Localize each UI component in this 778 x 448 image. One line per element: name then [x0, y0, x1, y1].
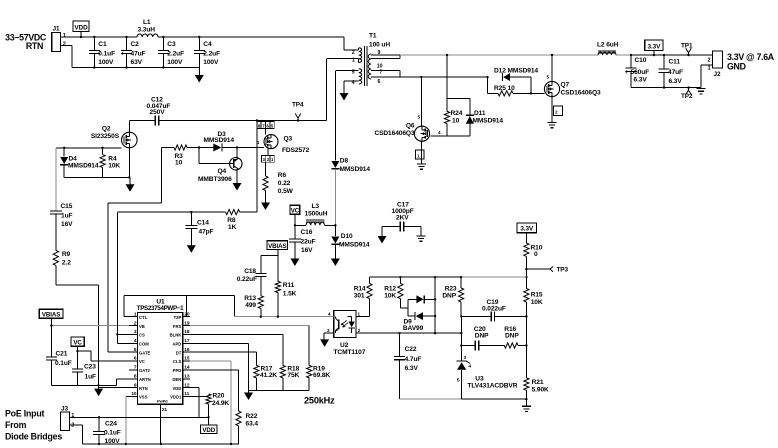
svg-text:3.3V: 3.3V: [648, 43, 662, 50]
svg-text:CS: CS: [139, 333, 145, 338]
svg-text:100 uH: 100 uH: [369, 42, 390, 49]
svg-text:1: 1: [63, 33, 66, 39]
svg-text:C3: C3: [167, 41, 176, 48]
svg-text:0.1uF: 0.1uF: [98, 50, 115, 57]
svg-text:301: 301: [354, 292, 365, 299]
svg-text:C22: C22: [405, 346, 417, 353]
svg-text:MMSD914: MMSD914: [68, 163, 99, 170]
svg-text:R14: R14: [354, 285, 366, 292]
svg-text:4: 4: [468, 364, 471, 370]
svg-text:2.2: 2.2: [62, 259, 71, 266]
svg-text:C18: C18: [244, 268, 256, 275]
svg-text:ARTN: ARTN: [139, 377, 151, 382]
svg-text:J2: J2: [714, 71, 721, 78]
svg-text:10K: 10K: [384, 292, 396, 299]
svg-text:L2 6uH: L2 6uH: [597, 42, 619, 49]
svg-text:C1: C1: [98, 41, 107, 48]
svg-text:1500uH: 1500uH: [305, 211, 328, 218]
svg-text:R25 10: R25 10: [494, 85, 515, 92]
svg-text:560uF: 560uF: [631, 69, 650, 76]
svg-text:VBIAS: VBIAS: [268, 243, 286, 250]
svg-text:1: 1: [134, 311, 137, 317]
svg-text:18: 18: [184, 329, 190, 335]
svg-text:T1: T1: [369, 33, 377, 40]
svg-text:TLV431ACDBVR: TLV431ACDBVR: [467, 383, 517, 390]
svg-text:DNP: DNP: [442, 292, 456, 299]
svg-text:3: 3: [464, 355, 467, 361]
svg-text:Q2: Q2: [102, 126, 111, 133]
svg-text:FRS: FRS: [173, 324, 182, 329]
svg-text:2: 2: [134, 320, 137, 326]
svg-text:R13: R13: [244, 295, 256, 302]
svg-text:MMSD914: MMSD914: [473, 117, 504, 124]
svg-text:0: 0: [534, 251, 538, 258]
svg-text:100V: 100V: [98, 59, 114, 66]
svg-text:VB: VB: [139, 324, 145, 329]
svg-text:CSD16406Q3: CSD16406Q3: [561, 89, 601, 96]
svg-text:CLS: CLS: [173, 359, 182, 364]
svg-text:10: 10: [131, 391, 137, 397]
svg-text:1K: 1K: [228, 224, 237, 231]
svg-text:7: 7: [380, 70, 383, 76]
svg-text:C21: C21: [56, 350, 68, 357]
svg-text:D4: D4: [69, 155, 78, 162]
svg-text:RTN: RTN: [26, 41, 43, 51]
svg-text:PPD: PPD: [173, 368, 182, 373]
svg-text:2: 2: [71, 423, 74, 429]
svg-text:APD: APD: [172, 341, 181, 346]
svg-text:C23: C23: [84, 363, 96, 370]
svg-text:47pF: 47pF: [199, 228, 214, 235]
svg-text:8: 8: [134, 373, 137, 379]
svg-text:R21: R21: [532, 379, 544, 386]
svg-text:2: 2: [352, 50, 355, 56]
svg-text:3.3V @ 7.6A: 3.3V @ 7.6A: [727, 52, 775, 62]
svg-text:Q6: Q6: [406, 123, 415, 130]
svg-text:TP2: TP2: [681, 93, 693, 100]
svg-text:10K: 10K: [531, 299, 543, 306]
svg-text:47uF: 47uF: [131, 50, 146, 57]
svg-text:R9: R9: [62, 251, 71, 258]
svg-text:2.2uF: 2.2uF: [203, 50, 220, 57]
svg-text:63V: 63V: [131, 59, 143, 66]
svg-text:1: 1: [352, 57, 355, 63]
svg-text:0.22uF: 0.22uF: [237, 276, 257, 283]
svg-text:14: 14: [184, 365, 190, 371]
svg-text:Q4: Q4: [218, 168, 227, 175]
svg-text:D11: D11: [474, 110, 486, 117]
svg-text:41.2K: 41.2K: [260, 372, 277, 379]
svg-text:4: 4: [352, 80, 355, 86]
svg-text:TCMT1107: TCMT1107: [334, 349, 366, 356]
svg-text:VC: VC: [73, 339, 82, 346]
svg-text:D12 MMSD914: D12 MMSD914: [494, 68, 538, 75]
svg-text:6: 6: [134, 356, 137, 362]
svg-text:1uF: 1uF: [61, 212, 72, 219]
svg-text:250V: 250V: [150, 109, 166, 116]
svg-text:MMSD914: MMSD914: [204, 137, 235, 144]
svg-text:3.3uH: 3.3uH: [138, 27, 156, 34]
svg-text:2: 2: [707, 58, 710, 64]
svg-text:SI23250S: SI23250S: [91, 133, 120, 140]
svg-text:R23: R23: [445, 285, 457, 292]
svg-text:Q3: Q3: [284, 135, 293, 142]
svg-text:GND: GND: [727, 62, 746, 72]
svg-text:5.90K: 5.90K: [532, 387, 549, 394]
svg-text:C15: C15: [61, 203, 73, 210]
svg-text:L3: L3: [312, 203, 320, 210]
svg-text:DNP: DNP: [475, 332, 489, 339]
svg-text:0.022uF: 0.022uF: [482, 306, 506, 313]
svg-text:10: 10: [452, 117, 460, 124]
svg-text:13: 13: [184, 373, 190, 379]
svg-text:0.1uF: 0.1uF: [104, 429, 121, 436]
svg-text:TP3: TP3: [557, 267, 569, 274]
svg-text:RTN: RTN: [139, 386, 148, 391]
svg-text:1.5K: 1.5K: [283, 290, 297, 297]
svg-text:U3: U3: [475, 375, 484, 382]
svg-text:10K: 10K: [108, 163, 120, 170]
svg-text:T2P: T2P: [174, 315, 182, 320]
svg-text:15: 15: [184, 356, 190, 362]
svg-text:63.4: 63.4: [246, 420, 259, 427]
svg-text:16: 16: [184, 347, 190, 353]
svg-text:DEN: DEN: [172, 377, 181, 382]
svg-text:MMBT3906: MMBT3906: [198, 176, 232, 183]
svg-text:1: 1: [71, 413, 74, 419]
svg-text:9: 9: [378, 50, 381, 56]
svg-text:4: 4: [134, 338, 137, 344]
svg-text:R12: R12: [384, 285, 396, 292]
svg-text:VSS: VSS: [139, 395, 148, 400]
svg-text:4.7uF: 4.7uF: [405, 356, 422, 363]
svg-text:MMSD914: MMSD914: [339, 241, 370, 248]
svg-text:7: 7: [134, 365, 137, 371]
svg-text:VDD: VDD: [172, 386, 181, 391]
svg-text:DNP: DNP: [505, 332, 519, 339]
svg-text:VBIAS: VBIAS: [42, 311, 60, 318]
svg-text:GATE: GATE: [139, 350, 151, 355]
svg-text:C2: C2: [131, 41, 140, 48]
svg-text:GAT2: GAT2: [139, 368, 151, 373]
svg-text:BAV99: BAV99: [403, 325, 424, 332]
svg-text:VDD: VDD: [202, 427, 215, 434]
svg-text:5: 5: [457, 377, 460, 383]
svg-text:R4: R4: [108, 155, 117, 162]
svg-text:DT: DT: [176, 350, 182, 355]
svg-text:R24: R24: [451, 110, 463, 117]
svg-text:22uF: 22uF: [301, 238, 316, 245]
svg-text:100V: 100V: [167, 59, 183, 66]
svg-text:16V: 16V: [61, 221, 73, 228]
svg-text:C14: C14: [197, 219, 209, 226]
svg-text:1uF: 1uF: [85, 374, 96, 381]
svg-text:0.1uF: 0.1uF: [55, 360, 72, 367]
svg-text:CSD16406Q3: CSD16406Q3: [374, 130, 414, 137]
svg-text:5: 5: [352, 69, 355, 75]
svg-text:6.3V: 6.3V: [405, 365, 419, 372]
svg-text:J3: J3: [61, 406, 68, 413]
svg-text:6.3V: 6.3V: [634, 77, 648, 84]
svg-text:MMSD914: MMSD914: [340, 166, 371, 173]
svg-text:+: +: [121, 51, 125, 57]
svg-text:1: 1: [707, 65, 710, 71]
svg-text:12: 12: [184, 382, 190, 388]
svg-text:TPS23754PWP−1: TPS23754PWP−1: [137, 305, 184, 312]
svg-text:69.8K: 69.8K: [313, 372, 330, 379]
svg-text:BLNK: BLNK: [170, 333, 182, 338]
svg-text:VC: VC: [291, 208, 300, 215]
svg-text:From: From: [5, 420, 27, 430]
svg-text:R20: R20: [213, 392, 225, 399]
svg-text:R6: R6: [278, 172, 287, 179]
svg-text:16V: 16V: [301, 247, 313, 254]
svg-text:11: 11: [184, 391, 189, 397]
svg-text:20: 20: [184, 311, 190, 317]
svg-text:19: 19: [184, 320, 190, 326]
svg-text:R11: R11: [283, 282, 295, 289]
svg-text:C10: C10: [635, 57, 647, 64]
svg-text:C16: C16: [301, 229, 313, 236]
svg-text:0.22: 0.22: [278, 180, 291, 187]
svg-text:R15: R15: [531, 292, 543, 299]
svg-text:9: 9: [134, 382, 137, 388]
svg-text:100V: 100V: [105, 438, 121, 445]
svg-text:6: 6: [378, 79, 381, 85]
svg-text:2.2uF: 2.2uF: [167, 50, 184, 57]
svg-text:47uF: 47uF: [668, 69, 683, 76]
svg-text:VDD: VDD: [74, 24, 88, 31]
svg-text:2KV: 2KV: [396, 214, 409, 221]
svg-text:0.5W: 0.5W: [278, 188, 294, 195]
svg-text:L1: L1: [143, 19, 151, 26]
svg-text:17: 17: [184, 338, 190, 344]
svg-text:Diode Bridges: Diode Bridges: [5, 432, 62, 442]
svg-text:TP1: TP1: [681, 43, 693, 50]
svg-text:R8: R8: [227, 217, 236, 224]
svg-text:3: 3: [134, 329, 137, 335]
svg-text:75K: 75K: [287, 372, 299, 379]
svg-text:100V: 100V: [203, 59, 219, 66]
svg-text:6.3V: 6.3V: [669, 78, 683, 85]
svg-text:FDS2572: FDS2572: [282, 147, 310, 154]
svg-text:C24: C24: [105, 421, 117, 428]
svg-text:C4: C4: [203, 41, 212, 48]
svg-text:5: 5: [134, 347, 137, 353]
svg-text:2: 2: [63, 42, 66, 48]
svg-text:24.9K: 24.9K: [212, 400, 229, 407]
svg-text:21: 21: [162, 407, 168, 413]
svg-text:250kHz: 250kHz: [304, 395, 335, 405]
svg-text:VC: VC: [139, 359, 145, 364]
svg-text:Q7: Q7: [561, 82, 570, 89]
svg-text:C11: C11: [669, 59, 681, 66]
svg-text:D10: D10: [341, 233, 353, 240]
svg-text:J1: J1: [53, 26, 60, 33]
svg-text:PwPd: PwPd: [157, 398, 168, 403]
svg-text:10: 10: [175, 160, 183, 167]
svg-text:VDD1: VDD1: [170, 395, 182, 400]
svg-text:3.3V: 3.3V: [520, 226, 534, 233]
svg-text:+: +: [625, 70, 629, 76]
svg-text:CTL: CTL: [139, 315, 148, 320]
svg-text:499: 499: [245, 302, 256, 309]
svg-text:COM: COM: [139, 341, 149, 346]
svg-text:PoE Input: PoE Input: [5, 409, 45, 419]
svg-text:D8: D8: [340, 158, 349, 165]
svg-text:TP4: TP4: [292, 102, 304, 109]
svg-text:R22: R22: [246, 413, 258, 420]
